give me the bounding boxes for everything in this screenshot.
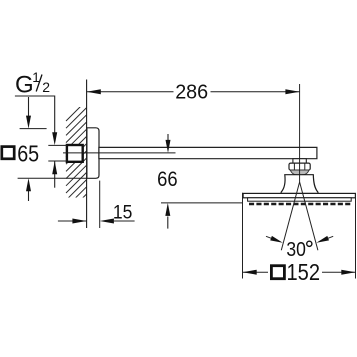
svg-text:286: 286	[175, 82, 208, 104]
15 dimension	[99, 181, 101, 228]
square symbol 152	[271, 266, 284, 279]
66 dimension	[167, 134, 169, 141]
square symbol 65	[2, 147, 14, 159]
nut facet line left	[293, 163, 295, 170]
square-65 dimension	[28, 97, 30, 116]
spray cone line left	[281, 182, 299, 250]
svg-text:66: 66	[157, 168, 178, 191]
286 right extension / head centerline	[299, 84, 301, 182]
hex nut	[289, 163, 310, 170]
svg-text:30: 30	[286, 238, 306, 261]
30 degree arc arrows	[266, 236, 275, 239]
nut chamfer (shaded)	[290, 170, 309, 175]
svg-text:2: 2	[42, 79, 50, 95]
spray cone line right	[300, 182, 318, 250]
square-152 dimension	[242, 193, 244, 279]
wall hatching	[66, 100, 87, 221]
escutcheon rosette	[87, 128, 99, 179]
degree symbol	[307, 241, 312, 246]
G1/2 nipple square	[67, 145, 83, 162]
G1/2 leader + dimension	[15, 96, 55, 133]
head neck	[281, 175, 318, 194]
wall face line / 286 left extension / 15 left extension	[86, 80, 88, 229]
svg-text:G: G	[15, 72, 34, 99]
svg-text:152: 152	[287, 259, 321, 285]
nozzle dashes	[249, 203, 351, 205]
svg-text:65: 65	[17, 140, 39, 166]
svg-text:15: 15	[113, 203, 133, 224]
arm/nipple centerline	[63, 152, 176, 154]
nut facet line right	[304, 163, 306, 170]
286 dimension	[87, 91, 174, 93]
shower arm	[99, 147, 317, 158]
head plate cap	[243, 193, 355, 197]
connector stub	[293, 159, 306, 163]
head plate rim	[248, 198, 352, 201]
